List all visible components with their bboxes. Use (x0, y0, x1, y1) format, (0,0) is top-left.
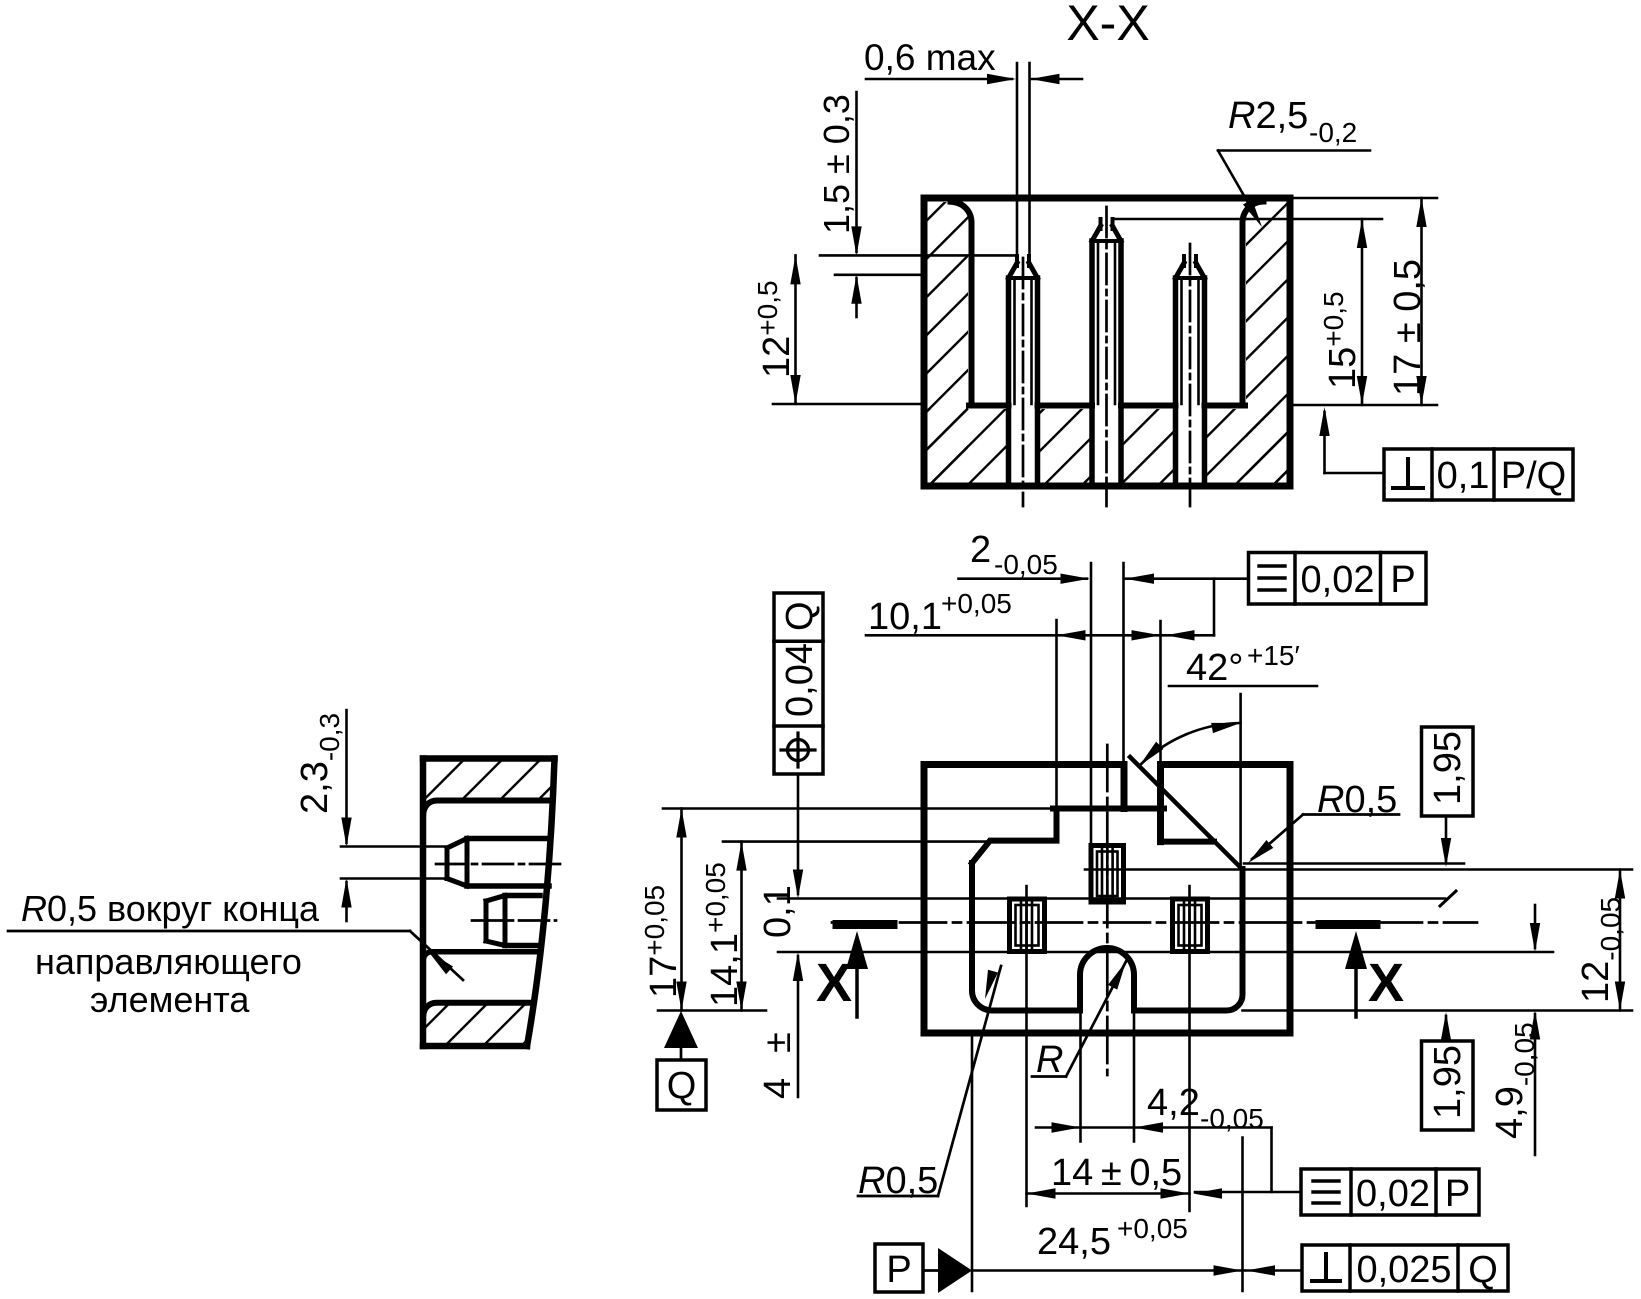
extension line chamfer vertex (1244, 862, 1464, 865)
svg-text:14 ± 0,5: 14 ± 0,5 (1051, 1152, 1182, 1194)
svg-text:X-X: X-X (1066, 0, 1149, 51)
extension line cavity right edge up (42° dim) (1239, 694, 1242, 869)
svg-text:P/Q: P/Q (1501, 455, 1566, 497)
dim 0,6 max dimension line and arrows (866, 78, 1012, 81)
svg-text:-0,05: -0,05 (994, 549, 1058, 580)
datum Q triangle and box (664, 1011, 698, 1048)
svg-text:0,1: 0,1 (757, 885, 799, 938)
svg-text:-0,2: -0,2 (1309, 117, 1357, 148)
oblique tick on pins top line (1440, 891, 1456, 906)
svg-text:+15′: +15′ (1247, 640, 1300, 671)
vertical center line pin 3 (1188, 886, 1191, 1211)
dim 15 dimension line (1361, 219, 1364, 405)
svg-text:R2,5: R2,5 (1228, 95, 1308, 137)
section marker right: bar, arrow, X (1320, 925, 1404, 1018)
pin 3 (right) (1176, 244, 1205, 506)
cavity outline (972, 809, 1243, 1011)
svg-text:17 ± 0,5: 17 ± 0,5 (1387, 259, 1429, 396)
radius label R2,5-0,2 with leader (1218, 149, 1370, 152)
svg-text:X: X (1368, 953, 1404, 1013)
dim 15 extension line (pin 2 tip plane) (1113, 218, 1382, 221)
svg-text:элемента: элемента (90, 979, 250, 1020)
bottom band top line with fillet (423, 1003, 533, 1017)
svg-text:0,6 max: 0,6 max (864, 37, 996, 78)
svg-text:±: ± (757, 1032, 799, 1053)
parallelism frame ≡ 0,02 P top (1249, 553, 1427, 605)
extension line pins bottom (778, 951, 1553, 954)
dim 24,5+0,05 with datum P (972, 1269, 1244, 1272)
dim 14 ± 0,5 (1027, 1192, 1190, 1195)
dim 12-0,05 right (1619, 870, 1622, 1011)
radius label R0,5 (chamfer corner) (1303, 813, 1399, 816)
hatch base segments (928, 409, 1009, 483)
boxed dim 1,95 top (1422, 727, 1474, 867)
dim 12 dimension line (773, 403, 924, 406)
vertical center line pin 1 (1025, 886, 1028, 1206)
extension line notch floor level (17 dim) (663, 807, 1057, 810)
top band bottom line with fillet (423, 801, 552, 815)
lower pin (guide element) profile (472, 896, 556, 946)
parallelism frame ≡ 0,02 P bottom with leader (1193, 1169, 1479, 1215)
svg-text:R0,5 вокруг конца: R0,5 вокруг конца (21, 888, 320, 929)
radius label R (keyway bump) (1032, 1075, 1066, 1078)
extension line slot left side / pin side (2 dim) (1090, 563, 1093, 846)
svg-text:0,025: 0,025 (1356, 1249, 1451, 1291)
svg-text:Q: Q (1468, 1249, 1498, 1291)
hatch right wall (1246, 202, 1287, 483)
pin 1 (left) (1009, 256, 1038, 506)
dim 14,1+0,05 line (740, 842, 743, 1011)
boxed dim 1,95 bottom (1422, 1012, 1474, 1130)
guide shelf line with fillet (423, 952, 537, 961)
svg-text:0,04: 0,04 (779, 643, 821, 717)
svg-text:0,02: 0,02 (1356, 1173, 1430, 1215)
slab left edge (420, 759, 427, 1047)
side pin 1 hatched (1010, 899, 1045, 952)
svg-text:+0,05: +0,05 (1117, 1213, 1188, 1244)
slab top edge (423, 755, 555, 762)
dim 17 extension lines (1290, 197, 1437, 200)
dim 17+0,05 line (680, 809, 683, 1011)
slab curved right edge (527, 759, 555, 1047)
extension line cavity bottom right (1243, 1009, 1633, 1012)
dim 10,1+0,05 line (866, 634, 1214, 637)
hatch left wall (928, 202, 969, 483)
svg-text:2: 2 (970, 529, 991, 571)
svg-text:42°: 42° (1186, 647, 1243, 689)
dim 17 dimension line (1420, 198, 1423, 405)
svg-text:P: P (886, 1249, 911, 1291)
svg-text:Q: Q (779, 601, 821, 631)
extension line cavity top level (14,1 dim) (723, 840, 990, 843)
extension lines below body (971, 1033, 974, 1291)
extension line 12 dim upper (1085, 868, 1632, 871)
dim 2,3 extension lines (341, 845, 448, 848)
dim 1,5 dimension line and arrows (855, 92, 858, 252)
svg-text:4: 4 (757, 1078, 799, 1099)
dim 4 ± 0,1 arrows (797, 774, 800, 894)
dim text 42°+15' with shelf (1169, 685, 1317, 688)
chamfer 42° line with extension (1130, 757, 1243, 870)
extension line pins top (4 dim) (778, 897, 1445, 900)
svg-text:P: P (1390, 559, 1415, 601)
hatch top band (426, 762, 552, 813)
dim 2-0,05 line with outside arrows (959, 577, 1088, 580)
svg-text:1,95: 1,95 (1427, 1045, 1469, 1119)
central pin 2 hatched (1091, 846, 1124, 903)
cavity floor line (969, 403, 1009, 409)
dim 4,2-0,05 (1036, 1126, 1272, 1129)
dim 42°+15' angle arc with arrows (1139, 723, 1240, 766)
radius label R0,5 (cavity bottom-left corner) (938, 966, 1001, 1196)
right wall inner edge (1243, 202, 1264, 406)
svg-text:10,1: 10,1 (868, 596, 942, 638)
body outer outline (924, 198, 1290, 486)
section marker left: bar, arrow, X (816, 925, 893, 1018)
svg-text:R0,5: R0,5 (858, 1160, 938, 1202)
svg-text:1,95: 1,95 (1427, 731, 1469, 805)
extension line cavity step (10,1 dim) (1055, 620, 1058, 809)
dim 0,6 max extension lines (1016, 63, 1019, 256)
svg-text:R0,5: R0,5 (1317, 779, 1397, 821)
position tolerance frame ⊕ 0,04 Q (vertical) (774, 593, 823, 774)
extension line slot right wall (10,1 dim) (1159, 621, 1162, 765)
note leader with arrow (8, 930, 410, 933)
extension line cavity bottom left (datum Q) (658, 1009, 766, 1012)
svg-text:Q: Q (667, 1065, 697, 1107)
svg-text:X: X (816, 953, 852, 1013)
datum P triangle and box (938, 1248, 972, 1293)
horizontal center line (832, 921, 1477, 924)
body outline right/top with slot right wall (924, 765, 1290, 1034)
svg-text:+0,05: +0,05 (941, 588, 1012, 619)
svg-text:R: R (1036, 1039, 1063, 1081)
vertical center line pin 2 (1106, 745, 1109, 1075)
dim 4,9-0,05 right (1534, 905, 1537, 948)
svg-text:4,2: 4,2 (1147, 1082, 1200, 1124)
side pin 3 hatched (1173, 899, 1208, 952)
svg-text:направляющего: направляющего (35, 941, 302, 982)
svg-text:P: P (1445, 1173, 1470, 1215)
hatch bottom band (426, 1006, 531, 1044)
body outline left/top (924, 765, 1124, 1034)
svg-text:0,1: 0,1 (1437, 455, 1490, 497)
left wall inner edge (951, 202, 972, 406)
svg-text:-0,05: -0,05 (1200, 1103, 1264, 1134)
upper pin profile (436, 839, 566, 887)
dim 1,5 extension lines (820, 254, 1016, 257)
slab bottom edge (423, 1043, 527, 1050)
svg-text:1,5 ± 0,3: 1,5 ± 0,3 (816, 94, 857, 234)
dim 2,3 dimension line and arrows (345, 710, 348, 843)
feature control frame ⊥ 0,1 P/Q (1319, 407, 1573, 500)
pin 2 (center, taller) (1092, 207, 1121, 506)
perpendicularity frame ⊥ 0,025 Q (1302, 1245, 1508, 1291)
svg-text:24,5: 24,5 (1037, 1221, 1111, 1263)
svg-text:0,02: 0,02 (1301, 559, 1375, 601)
